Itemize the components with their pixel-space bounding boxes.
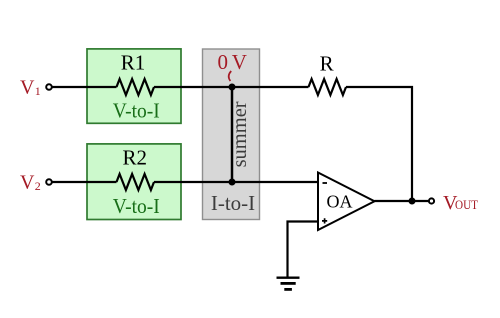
svg-text:V: V <box>20 77 35 99</box>
svg-text:1: 1 <box>35 84 41 98</box>
svg-text:V-to-I: V-to-I <box>113 99 160 123</box>
svg-text:I-to-I: I-to-I <box>211 191 255 215</box>
svg-text:0V: 0V <box>218 50 247 74</box>
svg-text:R2: R2 <box>122 146 147 170</box>
svg-text:V-to-I: V-to-I <box>113 194 160 218</box>
svg-text:V: V <box>20 172 35 194</box>
svg-text:OA: OA <box>327 192 353 212</box>
svg-text:R: R <box>320 52 334 76</box>
svg-text:2: 2 <box>35 179 41 193</box>
svg-text:OUT: OUT <box>455 198 478 212</box>
svg-text:R1: R1 <box>121 51 146 75</box>
